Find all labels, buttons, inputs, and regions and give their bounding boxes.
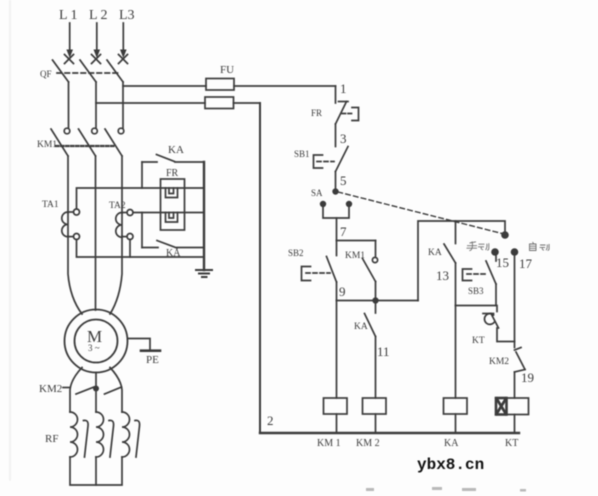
- contactor KM1 pole 3: [105, 128, 124, 156]
- svg-text:3 ~: 3 ~: [88, 343, 100, 353]
- label 自动 (auto) hand-drawn glyphs: [530, 242, 550, 251]
- wire KM1 coil to rail: [336, 414, 338, 433]
- svg-text:15: 15: [496, 255, 509, 270]
- svg-text:KA: KA: [354, 322, 368, 332]
- pushbutton SB3 actuator: [463, 269, 489, 281]
- svg-text:ybx8.cn: ybx8.cn: [417, 456, 484, 474]
- breaker QF pole 2 blade: [80, 60, 96, 82]
- ground rail right: [203, 162, 205, 270]
- junction dot motor mid lead: [93, 386, 99, 392]
- wire control bottom rail: [260, 432, 519, 434]
- relay contact KA upper bypass: [142, 155, 204, 163]
- wire TA2 secondary top to FR heater 2: [133, 212, 204, 214]
- svg-text:KA: KA: [166, 248, 181, 259]
- thermal relay FR release hook: [352, 108, 359, 121]
- wire L2 tap to FU lower: [96, 102, 205, 104]
- wire motor lead bottom right: [110, 368, 122, 413]
- svg-text:7: 7: [340, 224, 347, 239]
- wire L3 tap to FU upper: [123, 85, 206, 87]
- wire node 3: [335, 124, 337, 147]
- wire left link KA top: [141, 162, 143, 188]
- contactor KM2 shorting blade 2: [105, 387, 122, 394]
- svg-text:KM1: KM1: [345, 251, 365, 261]
- wire phase1 KM1 to TA1: [67, 156, 69, 213]
- watermark ybx8.cn: [417, 456, 484, 474]
- selector SA2 position dot 17: [511, 248, 519, 256]
- resistor RF coil 2: [96, 412, 104, 457]
- selector SA position dot left: [320, 201, 326, 207]
- svg-text:TA2: TA2: [109, 201, 126, 211]
- svg-text:17: 17: [519, 256, 533, 271]
- svg-text:11: 11: [377, 344, 390, 359]
- pushbutton SB1 contact blade (NC): [336, 147, 349, 172]
- contactor aux contact KM1 (NO): [363, 241, 378, 301]
- junction dot: [372, 297, 378, 303]
- contactor KM2 shorting blade 1: [76, 387, 94, 394]
- phase L3 supply arrow: [120, 23, 127, 58]
- wire left link KA bottom: [141, 213, 143, 248]
- wire phase2 KM1 to motor: [95, 156, 97, 310]
- thermal relay FR trip link dashes: [342, 113, 353, 115]
- wire TA1 secondary top to FR heater 1: [77, 188, 205, 209]
- faint scan smudges bottom: [366, 487, 526, 492]
- wire node 5: [335, 172, 337, 190]
- resistor RF coil 3: [122, 412, 130, 457]
- svg-text:KA: KA: [168, 144, 184, 156]
- breaker QF pole 3 blade: [107, 60, 123, 82]
- motor M inner circle: [75, 320, 118, 363]
- svg-text:SB3: SB3: [468, 286, 484, 296]
- wire SA to node 7: [336, 218, 338, 241]
- wire node 9: [336, 282, 338, 301]
- selector SA2 position dot 15: [491, 248, 499, 256]
- svg-text:L3: L3: [119, 8, 135, 23]
- svg-text:KM 1: KM 1: [317, 438, 341, 449]
- wire KA coil to rail: [455, 414, 457, 433]
- relay contact KA (NO) to node 11: [365, 301, 376, 399]
- resistor RF coil 1: [70, 412, 78, 457]
- resistor RF slash 3: [135, 420, 140, 457]
- svg-text:TA1: TA1: [42, 200, 59, 210]
- svg-text:L 2: L 2: [89, 8, 108, 23]
- svg-text:9: 9: [339, 284, 346, 299]
- thermal relay contact FR (NC): [336, 102, 349, 125]
- svg-text:SA: SA: [311, 188, 323, 198]
- wire phase3 TA2 to motor: [110, 236, 122, 314]
- wire motor PE: [128, 339, 151, 351]
- svg-text:2: 2: [267, 413, 274, 428]
- wire FU upper to node 1: [234, 85, 336, 87]
- fuse FU upper: [206, 79, 234, 91]
- pushbutton SB3 contact blade (NO) node 15: [486, 256, 496, 306]
- svg-text:SB2: SB2: [288, 248, 304, 258]
- contactor contact KM2 (NC) node 19: [515, 348, 526, 399]
- svg-text:KM 2: KM 2: [356, 438, 380, 449]
- svg-text:KT: KT: [505, 438, 518, 449]
- pushbutton SB1 actuator: [314, 155, 335, 168]
- wire node 1 drop: [335, 86, 337, 103]
- wire KM1 coil drop: [336, 301, 338, 399]
- resistor RF slash 1: [84, 420, 89, 457]
- wire KM2 coil to rail: [375, 414, 377, 433]
- selector SA pivot dot: [332, 188, 338, 194]
- wire motor lead bottom middle: [95, 373, 97, 413]
- contactor KM1 pole 1: [51, 128, 70, 156]
- wire FU lower to node 2 rail: [234, 102, 261, 104]
- time relay contact KT (delayed NO): [483, 306, 515, 342]
- coil KM2: [363, 398, 387, 414]
- svg-text:RF: RF: [45, 433, 58, 445]
- svg-text:KM2: KM2: [39, 383, 62, 395]
- relay contact KA lower bypass: [142, 241, 204, 249]
- pushbutton SB2 contact blade (NO): [327, 241, 337, 283]
- coil KA: [444, 398, 468, 414]
- breaker QF pole 3 terminal X: [119, 55, 128, 64]
- svg-text:FR: FR: [311, 108, 322, 118]
- contactor KM1 linkage dashes: [56, 145, 116, 147]
- coil KM1: [324, 398, 348, 414]
- relay contact KA branch (NO) node 13: [444, 221, 456, 306]
- phase L2 supply arrow: [94, 23, 101, 58]
- pushbutton SB2 actuator: [302, 267, 331, 281]
- ground symbol: [196, 270, 212, 277]
- wire junction row node 9: [337, 300, 419, 302]
- wire RF star bottom: [70, 457, 122, 485]
- svg-text:5: 5: [340, 173, 347, 188]
- breaker QF pole 2 terminal X: [92, 55, 101, 64]
- svg-text:FR: FR: [166, 168, 179, 179]
- resistor RF slash 2: [109, 420, 114, 457]
- contactor KM1 pole 2: [79, 128, 98, 156]
- svg-text:PE: PE: [146, 354, 159, 366]
- wire motor lead bottom left: [70, 368, 82, 413]
- wire TA1 secondary bottom to ground rail: [77, 240, 205, 258]
- svg-text:FU: FU: [220, 64, 234, 76]
- current transformer TA2 secondary terminals: [127, 210, 133, 240]
- wire phase1 TA1 to motor: [68, 236, 82, 314]
- wire TA2 secondary bottom down to ground rail: [129, 240, 131, 258]
- wire phase2 QF to KM1: [95, 82, 97, 128]
- wire KA coil drop: [455, 306, 457, 399]
- contactor KM2 label tick: [63, 387, 70, 389]
- wire phase3 KM1 to TA2: [121, 156, 123, 213]
- fuse FU lower: [205, 97, 234, 109]
- wire KT coil to rail: [514, 415, 516, 434]
- breaker QF pole 1 terminal X: [65, 55, 74, 64]
- svg-text:KM2: KM2: [489, 357, 509, 367]
- phase L1 supply arrow: [66, 23, 73, 58]
- breaker QF pole 1 blade: [53, 60, 69, 82]
- thermal relay FR heater element 1: [166, 188, 178, 198]
- wire node 17 drop: [514, 256, 516, 348]
- selector SA linkage dashed diagonal: [338, 192, 504, 234]
- thermal relay FR heater box: [161, 179, 185, 230]
- current transformer TA2 primary: [116, 213, 122, 238]
- svg-text:SB1: SB1: [294, 149, 310, 159]
- wire phase1 QF to KM1: [68, 82, 70, 128]
- wire bracket KA-SB3: [456, 305, 497, 307]
- thermal relay FR heater element 2: [166, 213, 178, 223]
- label 手动 (manual) hand-drawn glyphs: [467, 242, 489, 251]
- svg-text:19: 19: [521, 370, 534, 385]
- current transformer TA1 secondary terminals: [74, 209, 80, 240]
- wire phase3 QF to KM1: [122, 82, 124, 128]
- coil KT with delay element: [496, 398, 529, 415]
- ground bar PE: [141, 349, 160, 352]
- svg-text:KA: KA: [428, 248, 442, 258]
- breaker QF linkage dashes: [57, 72, 118, 74]
- svg-text:L 1: L 1: [59, 8, 78, 23]
- motor M outer circle: [65, 310, 128, 373]
- wire right link to top rail: [418, 221, 505, 301]
- svg-text:KT: KT: [472, 336, 485, 346]
- selector SA bracket: [323, 207, 349, 219]
- svg-text:3: 3: [340, 131, 347, 146]
- svg-text:1: 1: [340, 81, 347, 96]
- selector SA2 common dot: [501, 231, 509, 239]
- current transformer TA1 primary: [62, 212, 68, 237]
- wire split node7 horizontal: [337, 240, 376, 242]
- svg-text:13: 13: [436, 268, 449, 283]
- selector SA position dot right: [346, 201, 352, 207]
- svg-text:KM1: KM1: [37, 140, 57, 150]
- svg-text:QF: QF: [40, 69, 52, 79]
- wire RF coil2 bottom: [95, 457, 97, 485]
- scan edge band left: [9, 0, 11, 480]
- wire node 2 rail: [259, 103, 261, 433]
- svg-text:KA: KA: [444, 438, 459, 449]
